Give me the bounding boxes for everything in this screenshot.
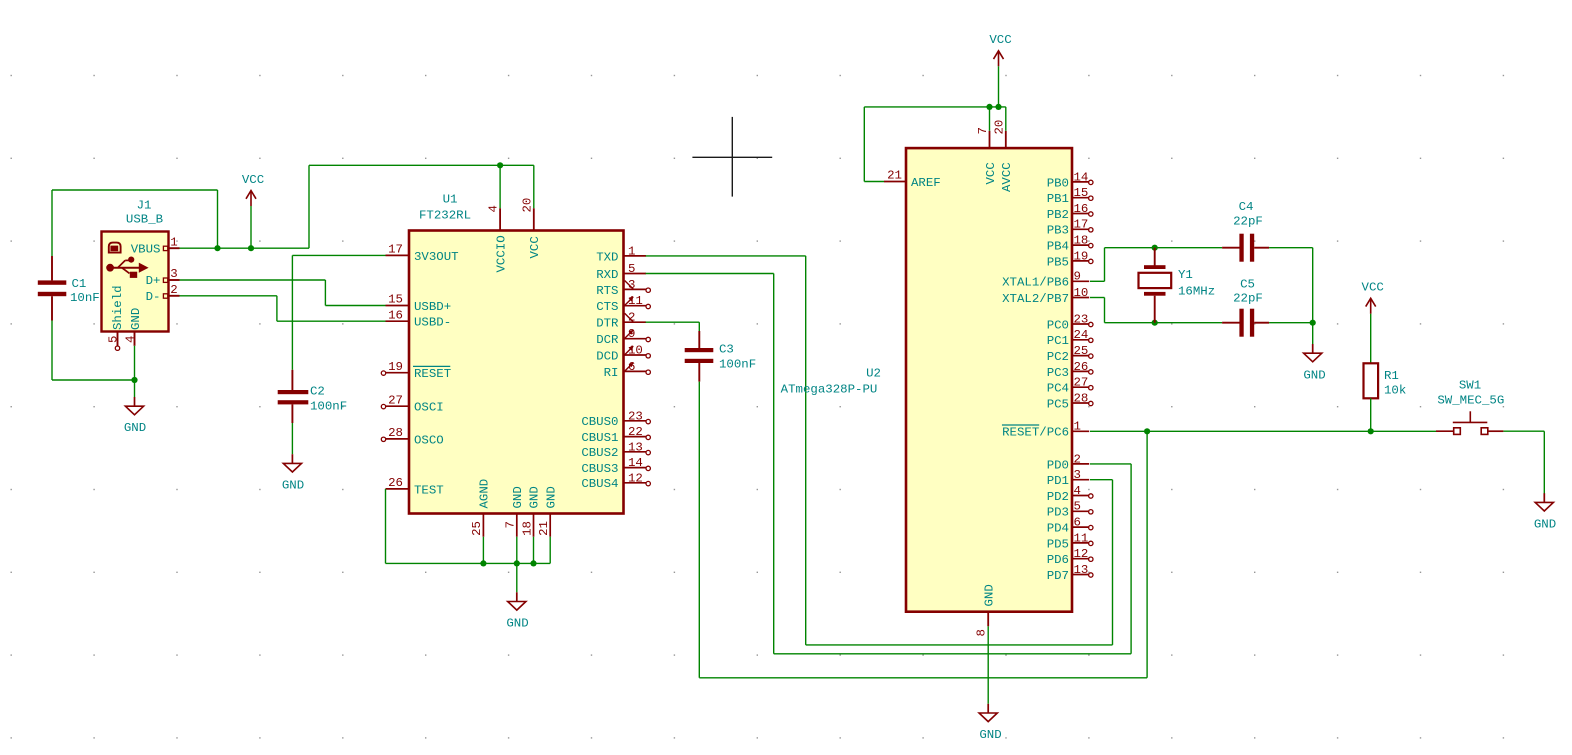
J1 pin 3 D+: [146, 267, 180, 288]
wire C1 top to corner: [51, 190, 53, 256]
U2 pin 9 XTAL1/PB6: [1002, 270, 1089, 290]
junction DTR-RESET: [1144, 428, 1150, 434]
crystal Y1: [1139, 248, 1216, 323]
svg-text:6: 6: [1074, 516, 1081, 530]
U2 pin 6 PD4: [1047, 516, 1093, 536]
capacitor C1: [38, 256, 100, 321]
U2 pin 19 PB5: [1047, 249, 1093, 269]
svg-text:SW1: SW1: [1459, 378, 1481, 392]
svg-text:10: 10: [628, 344, 643, 358]
svg-text:GND: GND: [979, 728, 1001, 742]
svg-text:12: 12: [1074, 547, 1089, 561]
wire 3V3OUT to C2: [292, 255, 385, 369]
U2 pin 24 PC1: [1047, 328, 1093, 348]
svg-text:3V3OUT: 3V3OUT: [414, 250, 459, 264]
svg-text:GND: GND: [1534, 517, 1556, 531]
wire D- segment b: [276, 296, 278, 321]
U1 pin 14 CBUS3: [581, 456, 650, 476]
svg-text:DTR: DTR: [596, 317, 619, 331]
wire GND21 stub: [549, 537, 551, 564]
svg-text:PB4: PB4: [1047, 240, 1069, 254]
wire XTAL2 segment: [1090, 298, 1105, 323]
svg-text:PD6: PD6: [1047, 553, 1069, 567]
svg-text:PC0: PC0: [1047, 318, 1069, 332]
junction crystal top: [1152, 245, 1158, 251]
U1 pin 1 TXD: [596, 244, 646, 264]
U2 pin 28 PC5: [1047, 391, 1093, 411]
svg-text:13: 13: [1074, 563, 1089, 577]
wire VBUS horizontal: [180, 247, 310, 249]
wire riser to VCCIO pin: [499, 165, 501, 208]
svg-text:5: 5: [1074, 500, 1081, 514]
wire top horizontal C1 to VBUS riser: [52, 189, 218, 191]
wire TXD segment b: [805, 256, 807, 645]
svg-text:19: 19: [1074, 249, 1089, 263]
svg-text:PB0: PB0: [1047, 176, 1069, 190]
svg-text:AREF: AREF: [911, 176, 941, 190]
svg-text:DCR: DCR: [596, 333, 619, 347]
ground symbol (crystal): [1303, 344, 1325, 382]
U1 pin 22 CBUS1: [581, 425, 650, 445]
svg-text:4: 4: [487, 205, 501, 212]
svg-text:11: 11: [628, 294, 643, 308]
capacitor C5: [1222, 278, 1269, 337]
svg-text:25: 25: [470, 521, 484, 536]
wire D- segment a: [180, 295, 277, 297]
svg-text:20: 20: [520, 198, 534, 213]
svg-text:FT232RL: FT232RL: [419, 209, 471, 223]
wire D+ segment b: [324, 280, 326, 306]
U1 pin 28 OSCO: [381, 426, 443, 447]
svg-text:GND: GND: [983, 584, 997, 606]
svg-text:21: 21: [887, 169, 902, 183]
U1 pin 6 RI: [604, 360, 651, 380]
U1 pin 5 RXD: [596, 262, 646, 282]
svg-text:C1: C1: [72, 277, 87, 291]
svg-text:RESET: RESET: [414, 367, 451, 381]
svg-text:D-: D-: [146, 290, 161, 304]
U1 pin 9 DCR: [596, 327, 650, 347]
U2 pin 14 PB0: [1047, 170, 1093, 190]
svg-text:SW_MEC_5G: SW_MEC_5G: [1437, 393, 1504, 407]
U1 pin 10 DCD: [596, 344, 650, 364]
capacitor C2: [278, 370, 347, 423]
svg-text:24: 24: [1074, 328, 1089, 342]
svg-text:14: 14: [628, 456, 643, 470]
junction crystal bottom: [1152, 320, 1158, 326]
wire VBUS up corner: [308, 165, 310, 248]
svg-text:GND: GND: [528, 486, 542, 508]
U1 pin 11 CTS: [596, 294, 650, 314]
svg-text:PD7: PD7: [1047, 569, 1069, 583]
svg-text:PB2: PB2: [1047, 208, 1069, 222]
wire corner down: [1312, 248, 1314, 323]
svg-text:PC4: PC4: [1047, 382, 1069, 396]
wire rail to ground symbol: [516, 563, 518, 592]
svg-text:21: 21: [537, 521, 551, 536]
J1 pin 4 GND: [123, 308, 143, 346]
U1 pin 27 OSCI: [381, 393, 443, 414]
svg-text:PB1: PB1: [1047, 192, 1069, 206]
svg-text:GND: GND: [124, 421, 146, 435]
U2 pin 17 PB3: [1047, 218, 1093, 238]
svg-text:17: 17: [1074, 218, 1089, 232]
svg-text:CBUS2: CBUS2: [581, 446, 618, 460]
J1 USB plug icon: [109, 243, 121, 253]
ground symbol (J1): [124, 397, 146, 435]
wire C5 to junction: [1269, 322, 1313, 324]
U2 pin 25 PC2: [1047, 344, 1093, 364]
svg-text:C4: C4: [1239, 200, 1254, 214]
svg-text:VCC: VCC: [242, 173, 264, 187]
wire AGND stub: [482, 537, 484, 564]
U1 pin 13 CBUS2: [581, 440, 650, 460]
svg-text:PB3: PB3: [1047, 224, 1069, 238]
svg-text:25: 25: [1074, 344, 1089, 358]
svg-text:PD2: PD2: [1047, 490, 1069, 504]
svg-text:PC1: PC1: [1047, 334, 1069, 348]
wire TXD segment d: [1090, 480, 1113, 645]
junction GND18: [530, 560, 536, 566]
junction VCCIO riser: [497, 162, 503, 168]
wire VBUS to U1 supply: [309, 164, 534, 166]
U2 pin 13 PD7: [1047, 563, 1093, 583]
svg-text:10nF: 10nF: [70, 291, 100, 305]
U1 pin 3 RTS: [596, 278, 650, 298]
wire riser to VCC pin: [533, 165, 535, 208]
svg-text:Shield: Shield: [111, 285, 125, 330]
svg-text:GND: GND: [1303, 368, 1325, 382]
svg-text:19: 19: [388, 360, 403, 374]
svg-text:PD1: PD1: [1047, 474, 1069, 488]
U2 pin 12 PD6: [1047, 547, 1093, 567]
U1 pin 17 3V3OUT: [386, 243, 459, 264]
svg-text:22pF: 22pF: [1233, 215, 1263, 229]
U1 pin 4 VCCIO: [487, 205, 509, 272]
svg-text:GND: GND: [506, 616, 528, 630]
U2 pin 8 GND: [975, 584, 997, 636]
sheet origin crosshair: [692, 117, 772, 197]
wire to crystal ground: [1312, 323, 1314, 344]
svg-text:C5: C5: [1240, 278, 1255, 292]
power symbol VCC (J1 area): [242, 173, 264, 206]
wire DTR segment d: [1146, 431, 1148, 678]
svg-text:2: 2: [170, 283, 177, 297]
svg-text:PB5: PB5: [1047, 255, 1069, 269]
svg-text:100nF: 100nF: [719, 358, 756, 372]
resistor R1: [1364, 363, 1407, 398]
wire D- segment c: [277, 320, 386, 322]
svg-text:9: 9: [1074, 270, 1081, 284]
U1 pin 26 TEST: [386, 476, 444, 497]
svg-text:DCD: DCD: [596, 349, 618, 363]
U2 pin 15 PB1: [1047, 186, 1093, 206]
U1 pin 18 GND: [520, 486, 541, 537]
svg-text:13: 13: [628, 440, 643, 454]
wire D+ segment a: [180, 279, 326, 281]
wire J1 pin4 to ground: [134, 346, 136, 397]
svg-text:PC2: PC2: [1047, 350, 1069, 364]
U2 pin 7 VCC: [976, 127, 998, 184]
svg-text:D+: D+: [146, 274, 161, 288]
capacitor C4: [1222, 200, 1269, 262]
wire TXD segment c: [806, 644, 1113, 646]
U1 pin 23 CBUS0: [581, 409, 650, 429]
svg-text:28: 28: [388, 426, 403, 440]
svg-text:Y1: Y1: [1178, 268, 1193, 282]
wire GND7 stub: [516, 537, 518, 564]
svg-text:22: 22: [628, 425, 643, 439]
J1 pin 1 VBUS: [131, 236, 180, 257]
svg-text:23: 23: [628, 409, 643, 423]
junction crystal ground: [1310, 320, 1316, 326]
svg-text:RTS: RTS: [596, 284, 618, 298]
U1 pin 21 GND: [537, 486, 558, 537]
svg-text:15: 15: [388, 293, 403, 307]
U2 pin 3 PD1: [1047, 468, 1090, 488]
svg-text:3: 3: [1074, 468, 1081, 482]
junction VBUS VCC: [248, 245, 254, 251]
U2 pin 2 PD0: [1047, 452, 1090, 472]
svg-text:VCC: VCC: [989, 33, 1011, 47]
wire XTAL1 segment: [1090, 248, 1105, 282]
svg-text:OSCO: OSCO: [414, 433, 444, 447]
wire RXD segment a: [646, 273, 774, 275]
svg-text:CBUS4: CBUS4: [581, 477, 618, 491]
svg-text:RXD: RXD: [596, 268, 618, 282]
svg-text:7: 7: [504, 521, 518, 528]
wire C4 to corner: [1269, 247, 1313, 249]
U1 pin 2 DTR: [596, 311, 646, 331]
svg-text:5: 5: [628, 262, 635, 276]
U1 pin 12 CBUS4: [581, 471, 650, 491]
svg-text:CBUS1: CBUS1: [581, 431, 618, 445]
wire R1 to RESET net: [1370, 398, 1372, 431]
U2 pin 4 PD2: [1047, 484, 1093, 504]
U2 pin 20 AVCC: [992, 120, 1014, 192]
wire U2 ground: [987, 626, 989, 704]
wire crystal top rail: [1105, 247, 1223, 249]
U1 pin 16 USBD-: [386, 308, 452, 329]
svg-text:16: 16: [1074, 202, 1089, 216]
svg-text:PC5: PC5: [1047, 397, 1069, 411]
wire TXD segment a: [646, 255, 806, 257]
svg-text:1: 1: [628, 244, 635, 258]
svg-text:USBD+: USBD+: [414, 300, 451, 314]
svg-text:10k: 10k: [1384, 384, 1406, 398]
power symbol VCC (R1): [1362, 281, 1384, 314]
svg-text:VCC: VCC: [528, 236, 542, 258]
J1 pin 2 D-: [146, 283, 180, 304]
svg-text:8: 8: [975, 629, 989, 636]
U1 pin 15 USBD+: [386, 293, 452, 314]
junction AGND: [480, 560, 486, 566]
svg-text:2: 2: [1074, 452, 1081, 466]
U2 pin 1 RESET/PC6: [1002, 420, 1089, 440]
U2 pin 27 PC4: [1047, 376, 1093, 396]
svg-text:12: 12: [628, 471, 643, 485]
svg-text:TEST: TEST: [414, 483, 444, 497]
U2 pin 26 PC3: [1047, 360, 1093, 380]
IC U2 ATmega328P-PU body: [781, 148, 1072, 612]
svg-text:AGND: AGND: [478, 479, 492, 509]
U2 pin 5 PD3: [1047, 500, 1093, 520]
svg-text:VBUS: VBUS: [131, 242, 161, 256]
svg-text:C2: C2: [310, 385, 325, 399]
wire C2 to ground: [291, 423, 293, 454]
wire crystal bottom rail: [1105, 322, 1223, 324]
U2 pin 23 PC0: [1047, 312, 1093, 332]
wire AREF loop: [864, 107, 884, 182]
ground symbol (SW1): [1534, 493, 1556, 531]
junction U2 VCC stem: [995, 104, 1001, 110]
svg-text:GND: GND: [129, 308, 143, 330]
junction U2 VCC pin riser: [986, 104, 992, 110]
svg-text:VCCIO: VCCIO: [495, 235, 509, 272]
wire VCC pin riser: [989, 107, 991, 131]
power symbol VCC (U2): [989, 33, 1011, 66]
wire riser down to VBUS net: [217, 190, 219, 248]
svg-text:RESET/PC6: RESET/PC6: [1002, 426, 1069, 440]
svg-text:22pF: 22pF: [1233, 292, 1263, 306]
svg-text:27: 27: [1074, 376, 1089, 390]
svg-text:10: 10: [1074, 286, 1089, 300]
U2 pin 16 PB2: [1047, 202, 1093, 222]
svg-text:PD5: PD5: [1047, 537, 1069, 551]
J1 USB trident icon: [106, 257, 148, 278]
svg-text:7: 7: [976, 127, 990, 134]
svg-text:CTS: CTS: [596, 300, 618, 314]
svg-text:PD3: PD3: [1047, 506, 1069, 520]
svg-text:20: 20: [992, 120, 1006, 135]
U2 pin 11 PD5: [1047, 531, 1093, 551]
U2 pin 18 PB4: [1047, 234, 1093, 254]
junction J1 ground: [131, 377, 137, 383]
wire U2 supply horizontal: [864, 106, 1006, 108]
U2 pin 21 AREF: [884, 169, 941, 190]
svg-text:CBUS3: CBUS3: [581, 462, 618, 476]
svg-text:PC3: PC3: [1047, 366, 1069, 380]
svg-text:CBUS0: CBUS0: [581, 415, 618, 429]
svg-text:XTAL1/PB6: XTAL1/PB6: [1002, 276, 1069, 290]
ground symbol (C2): [282, 454, 304, 492]
svg-text:18: 18: [1074, 234, 1089, 248]
svg-text:C3: C3: [719, 343, 734, 357]
wire RXD segment b: [773, 274, 775, 654]
svg-text:26: 26: [388, 476, 403, 490]
wire RXD segment c: [774, 653, 1131, 655]
svg-text:18: 18: [520, 521, 534, 536]
wire VCC to R1: [1370, 314, 1372, 364]
svg-text:GND: GND: [282, 478, 304, 492]
svg-text:17: 17: [388, 243, 403, 257]
svg-text:16: 16: [388, 308, 403, 322]
svg-text:11: 11: [1074, 531, 1089, 545]
svg-text:28: 28: [1074, 391, 1089, 405]
wire U1 ground rail: [386, 562, 551, 564]
svg-text:4: 4: [1074, 484, 1081, 498]
wire D+ segment c: [325, 305, 385, 307]
svg-text:14: 14: [1074, 170, 1089, 184]
svg-text:PD0: PD0: [1047, 458, 1069, 472]
svg-text:RI: RI: [604, 366, 619, 380]
svg-text:USBD-: USBD-: [414, 316, 451, 330]
svg-text:1: 1: [170, 236, 177, 250]
svg-text:GND: GND: [511, 486, 525, 508]
svg-text:U1: U1: [443, 193, 458, 207]
capacitor C3: [685, 331, 756, 382]
svg-text:GND: GND: [544, 486, 558, 508]
junction VBUS riser: [214, 245, 220, 251]
U2 pin 10 XTAL2/PB7: [1002, 286, 1089, 306]
junction R1-RESET: [1368, 428, 1374, 434]
svg-text:3: 3: [170, 267, 177, 281]
svg-text:AVCC: AVCC: [1000, 162, 1014, 192]
svg-text:15: 15: [1074, 186, 1089, 200]
svg-text:1: 1: [1074, 420, 1081, 434]
ground symbol (U1): [506, 592, 528, 630]
wire AVCC pin riser: [1005, 107, 1007, 131]
wire TEST down: [385, 489, 387, 564]
U1 pin 19 RESET: [381, 360, 451, 381]
U1 pin 25 AGND: [470, 479, 491, 537]
svg-text:PD4: PD4: [1047, 522, 1069, 536]
svg-text:4: 4: [123, 336, 137, 343]
U1 pin 20 VCC: [520, 198, 542, 259]
svg-text:VCC: VCC: [1362, 281, 1384, 295]
svg-text:U2: U2: [866, 367, 881, 381]
svg-text:VCC: VCC: [984, 162, 998, 184]
svg-text:100nF: 100nF: [310, 400, 347, 414]
svg-text:TXD: TXD: [596, 250, 618, 264]
U1 pin 7 GND: [504, 486, 525, 537]
svg-text:R1: R1: [1384, 369, 1399, 383]
J1 pin 5 Shield: [106, 285, 125, 350]
svg-text:26: 26: [1074, 360, 1089, 374]
svg-text:XTAL2/PB7: XTAL2/PB7: [1002, 292, 1069, 306]
wire RXD segment d: [1090, 464, 1131, 654]
wire VCC stem (U2): [998, 66, 1000, 107]
svg-text:USB_B: USB_B: [126, 213, 163, 227]
svg-text:16MHz: 16MHz: [1178, 285, 1215, 299]
switch SW1 SW_MEC_5G: [1436, 378, 1504, 434]
wire VCC stem (J1 area): [250, 206, 252, 248]
junction GND7: [514, 560, 520, 566]
connector J1 USB_B body: [102, 199, 169, 332]
svg-text:27: 27: [388, 393, 403, 407]
wire DTR segment b: [698, 382, 700, 678]
wire C1 bottom: [52, 321, 135, 381]
wire SW1 to ground corner: [1503, 431, 1544, 497]
svg-text:OSCI: OSCI: [414, 401, 444, 415]
wire RESET net: [1090, 430, 1436, 432]
svg-text:ATmega328P-PU: ATmega328P-PU: [781, 383, 878, 397]
wire DTR segment a: [646, 322, 700, 331]
wire DTR segment c: [699, 677, 1147, 679]
IC U1 FT232RL body: [409, 193, 624, 514]
svg-text:5: 5: [106, 336, 120, 343]
svg-text:J1: J1: [137, 199, 152, 213]
ground symbol (U2): [979, 704, 1002, 742]
wire GND18 stub: [533, 537, 535, 564]
svg-text:23: 23: [1074, 312, 1089, 326]
